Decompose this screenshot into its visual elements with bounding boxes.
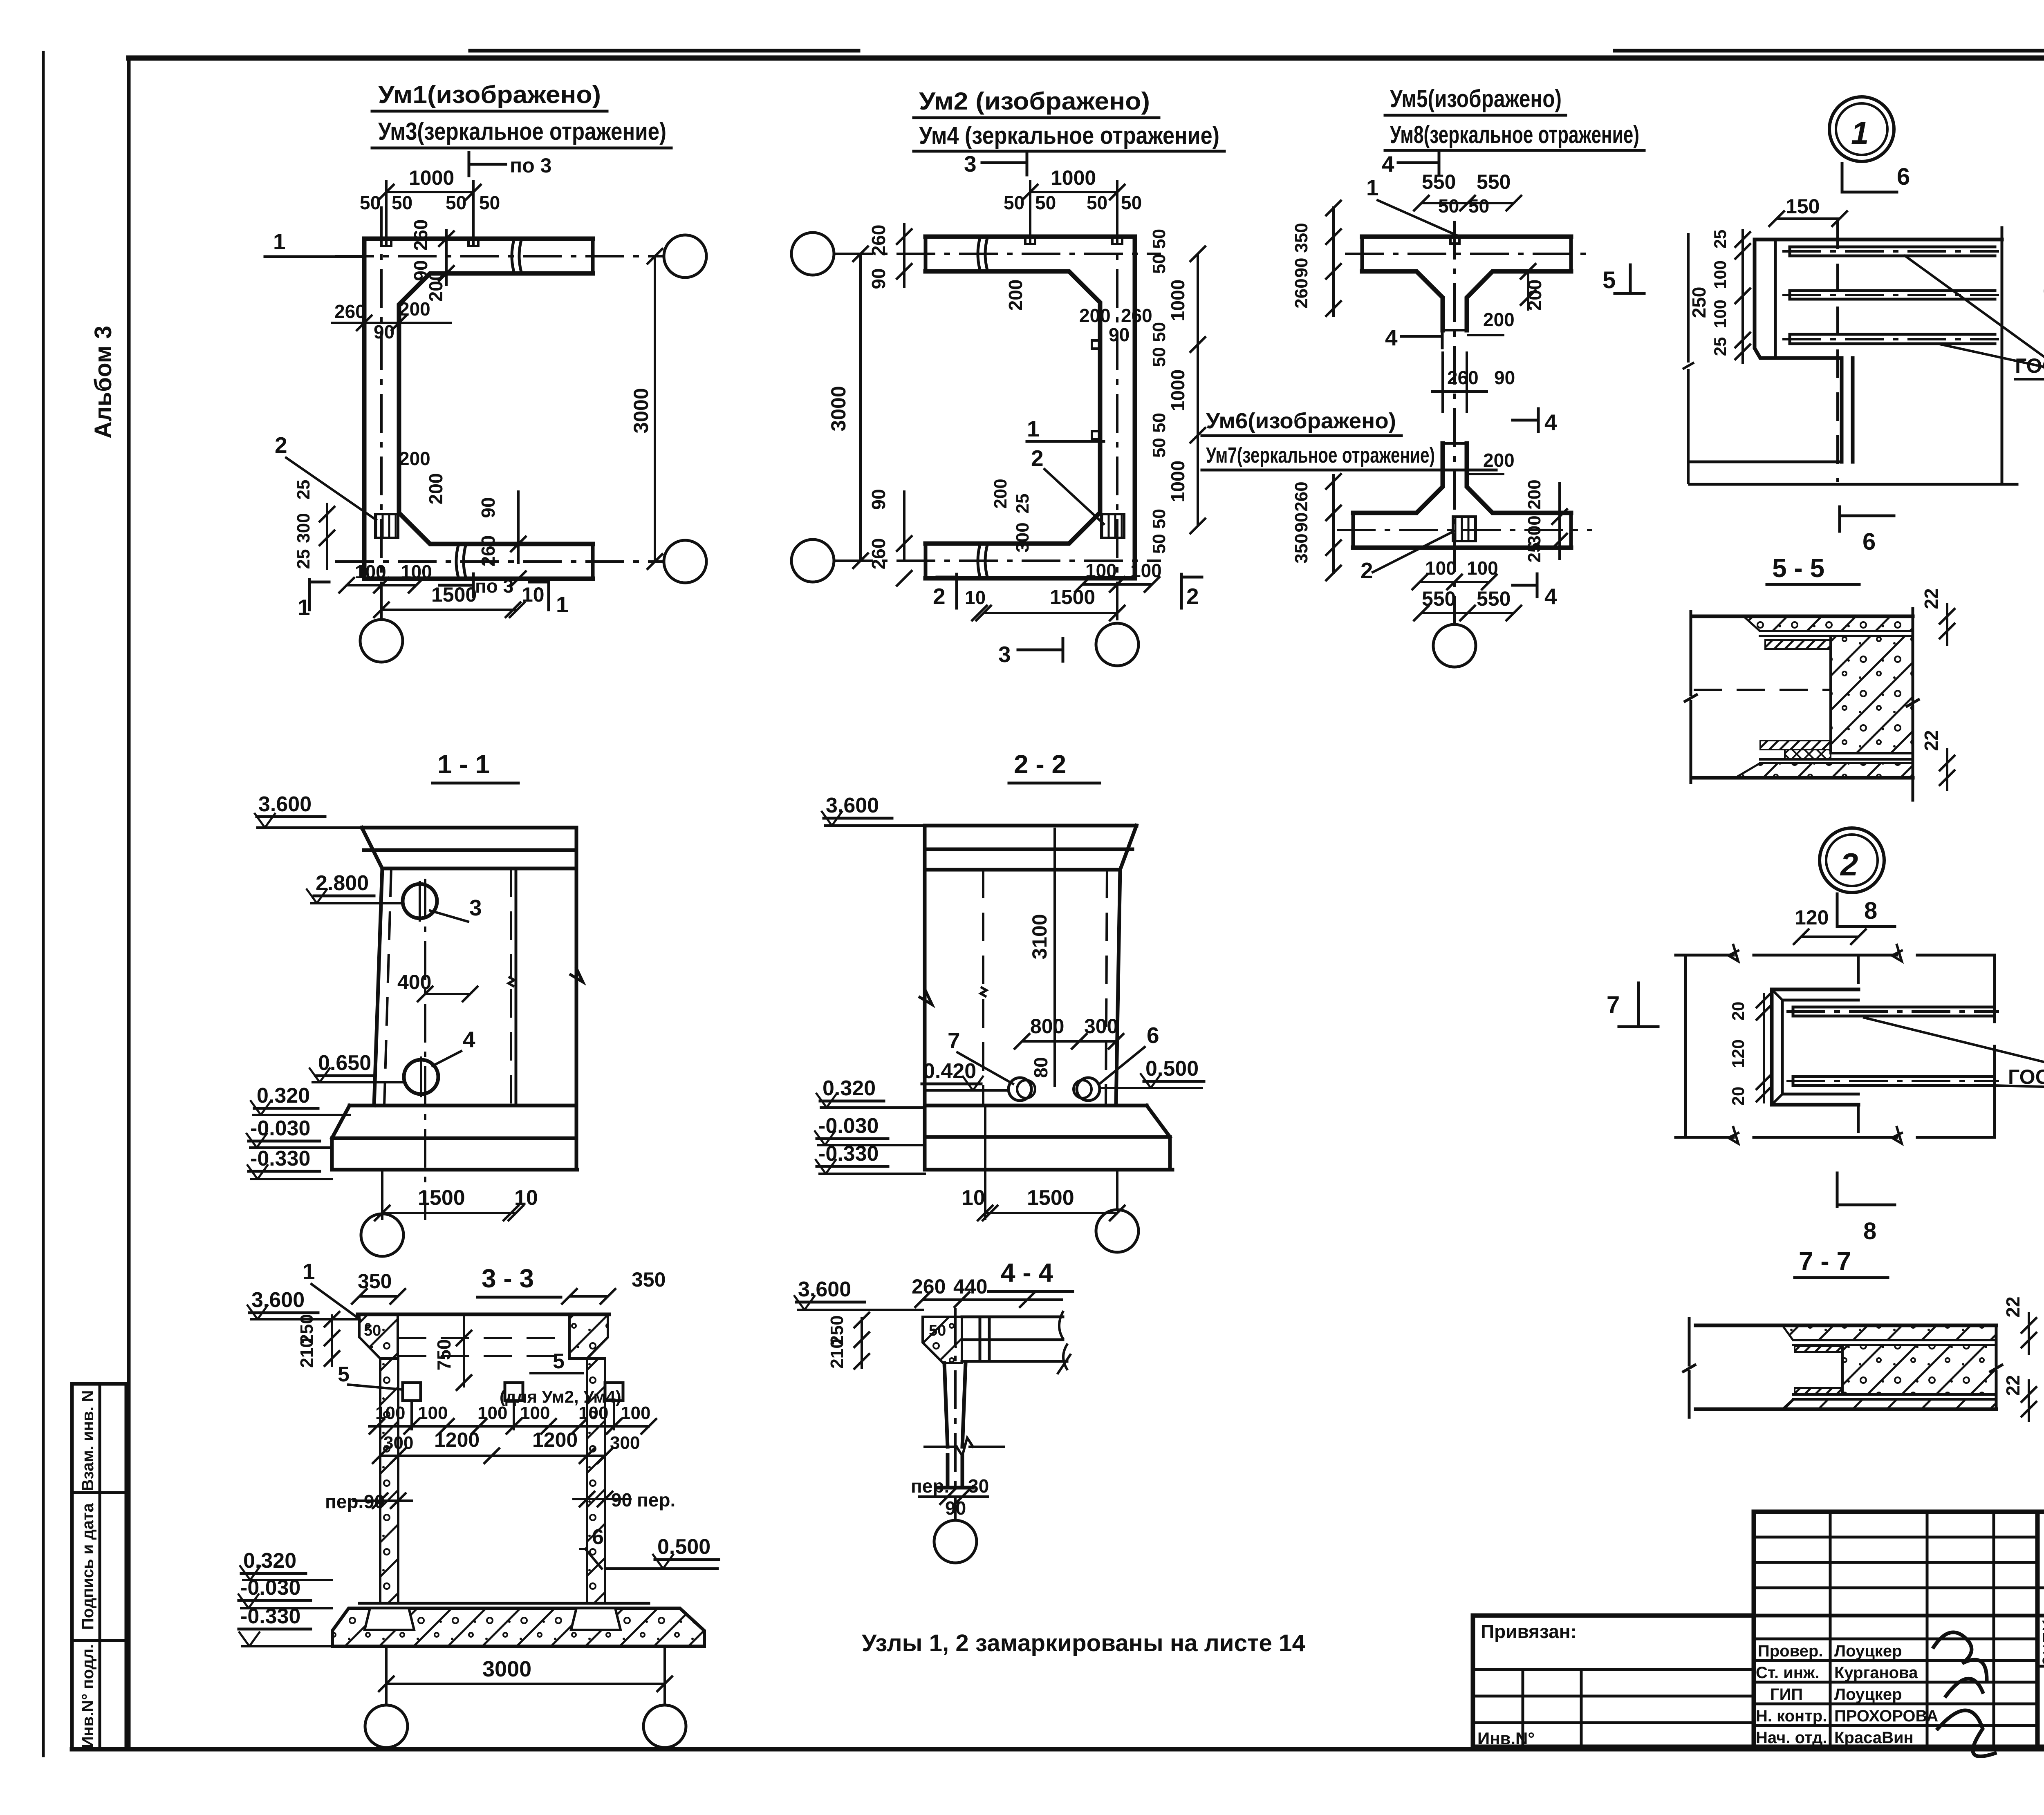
svg-text:Альбом 3: Альбом 3 [90, 326, 117, 439]
svg-text:90: 90 [477, 497, 499, 518]
svg-text:2: 2 [1840, 846, 1858, 882]
svg-text:Инв.N°: Инв.N° [1477, 1729, 1535, 1748]
svg-text:3100: 3100 [1028, 914, 1051, 959]
svg-text:200: 200 [991, 479, 1011, 508]
svg-text:300: 300 [610, 1433, 640, 1453]
svg-text:4: 4 [1385, 325, 1398, 350]
svg-text:2: 2 [1031, 445, 1044, 471]
svg-text:25: 25 [1524, 543, 1544, 563]
svg-text:1500: 1500 [418, 1186, 465, 1210]
svg-text:7: 7 [948, 1028, 960, 1053]
svg-text:Ум7(зеркальное отражение): Ум7(зеркальное отражение) [1206, 443, 1435, 468]
svg-text:0.320: 0.320 [257, 1084, 310, 1108]
svg-text:150: 150 [1786, 195, 1820, 218]
svg-text:1000: 1000 [1051, 166, 1096, 189]
svg-text:25: 25 [294, 549, 314, 569]
svg-text:300: 300 [1084, 1015, 1118, 1038]
svg-text:8: 8 [1864, 897, 1877, 924]
svg-text:6: 6 [592, 1525, 604, 1549]
svg-text:-0.030: -0.030 [250, 1117, 310, 1140]
svg-text:50: 50 [364, 1322, 381, 1339]
svg-text:100: 100 [477, 1403, 507, 1423]
svg-text:90: 90 [374, 321, 394, 342]
svg-text:7: 7 [1607, 991, 1620, 1018]
svg-text:Ум6(изображено): Ум6(изображено) [1206, 409, 1396, 433]
svg-text:1: 1 [1027, 416, 1040, 441]
svg-text:1500: 1500 [1050, 586, 1095, 609]
svg-text:210: 210 [827, 1338, 847, 1368]
svg-text:Провер.: Провер. [1758, 1642, 1823, 1660]
svg-text:750: 750 [433, 1339, 455, 1371]
svg-text:сточных Вод на фильтрацию.: сточных Вод на фильтрацию. [2042, 1652, 2044, 1667]
svg-text:50 50: 50 50 [1149, 509, 1169, 554]
svg-text:Лоуцкер: Лоуцкер [1834, 1642, 1902, 1660]
svg-text:50: 50 [1468, 195, 1489, 217]
svg-text:-0.330: -0.330 [250, 1147, 310, 1170]
svg-text:3: 3 [469, 895, 482, 920]
svg-text:1000: 1000 [1167, 461, 1188, 502]
svg-text:350: 350 [1291, 223, 1311, 253]
svg-text:90: 90 [1109, 324, 1130, 345]
svg-text:Привязан:: Привязан: [1481, 1621, 1577, 1642]
svg-text:Ум2 (изображено): Ум2 (изображено) [919, 87, 1150, 115]
svg-text:50: 50 [360, 192, 381, 213]
svg-text:100: 100 [375, 1403, 405, 1423]
svg-text:50: 50 [446, 192, 466, 213]
svg-text:5: 5 [553, 1350, 565, 1373]
svg-text:4: 4 [1544, 410, 1557, 435]
svg-text:550: 550 [1422, 170, 1456, 193]
svg-text:50: 50 [392, 192, 412, 213]
svg-text:пер.: пер. [637, 1489, 675, 1511]
svg-text:100: 100 [418, 1403, 448, 1423]
svg-text:6: 6 [1147, 1023, 1159, 1048]
svg-text:1200: 1200 [434, 1428, 480, 1451]
svg-text:200: 200 [425, 473, 446, 505]
svg-text:550: 550 [1477, 170, 1511, 193]
svg-text:100: 100 [621, 1403, 650, 1423]
svg-text:1: 1 [556, 592, 569, 617]
svg-text:2: 2 [275, 432, 287, 458]
svg-text:4: 4 [463, 1027, 475, 1052]
svg-text:5 - 5: 5 - 5 [1772, 553, 1824, 583]
svg-text:50: 50 [1438, 195, 1459, 217]
svg-text:50 50: 50 50 [1149, 229, 1169, 274]
svg-text:90: 90 [945, 1497, 966, 1519]
svg-text:200: 200 [1079, 305, 1111, 326]
svg-text:2 - 2: 2 - 2 [1014, 750, 1066, 779]
svg-text:120: 120 [1728, 1039, 1748, 1068]
svg-text:3.600: 3.600 [258, 792, 312, 816]
svg-text:3000: 3000 [827, 386, 850, 431]
svg-text:260: 260 [1447, 367, 1479, 388]
svg-text:Ум5(изображено): Ум5(изображено) [1390, 85, 1562, 112]
svg-text:5: 5 [1602, 267, 1616, 293]
svg-text:250: 250 [1688, 287, 1710, 318]
svg-text:1000: 1000 [1167, 369, 1188, 411]
svg-text:-0.330: -0.330 [240, 1605, 300, 1628]
svg-text:Нач. отд.: Нач. отд. [1756, 1729, 1827, 1747]
svg-text:300: 300 [1524, 515, 1544, 545]
svg-text:2: 2 [1360, 558, 1373, 583]
svg-text:Курганова: Курганова [1834, 1664, 1918, 1682]
svg-text:400: 400 [397, 971, 431, 994]
svg-text:Ум1(изображено): Ум1(изображено) [378, 81, 601, 108]
svg-text:80: 80 [1030, 1057, 1051, 1078]
svg-text:25: 25 [1013, 494, 1033, 514]
svg-text:22: 22 [1921, 730, 1942, 751]
svg-text:1000: 1000 [1167, 280, 1188, 321]
svg-text:90: 90 [868, 268, 889, 289]
svg-text:90: 90 [1291, 512, 1311, 533]
svg-text:7 - 7: 7 - 7 [1799, 1247, 1851, 1276]
svg-text:50: 50 [1087, 192, 1107, 213]
svg-text:100: 100 [1425, 557, 1457, 579]
svg-text:Подпись и дата: Подпись и дата [79, 1503, 97, 1630]
svg-text:260: 260 [868, 538, 889, 570]
svg-text:1500: 1500 [1027, 1186, 1074, 1210]
svg-text:3.600: 3.600 [251, 1288, 305, 1312]
svg-text:90: 90 [868, 489, 889, 510]
svg-text:Инв.N° подл.: Инв.N° подл. [79, 1644, 97, 1748]
svg-text:1000: 1000 [409, 166, 454, 189]
svg-text:4: 4 [1544, 584, 1557, 609]
svg-text:200: 200 [399, 448, 430, 469]
svg-text:Лоуцкер: Лоуцкер [1834, 1685, 1902, 1703]
svg-text:ГОСТ 14098-68-К3-Рр: ГОСТ 14098-68-К3-Рр [2015, 354, 2044, 377]
svg-text:ГОСТ 14098-68-К3-Рр: ГОСТ 14098-68-К3-Рр [2008, 1065, 2044, 1088]
svg-text:100: 100 [1467, 557, 1498, 579]
svg-text:210: 210 [297, 1338, 317, 1367]
svg-text:3000: 3000 [482, 1657, 531, 1681]
svg-text:1200: 1200 [532, 1428, 578, 1451]
svg-text:3000: 3000 [630, 388, 652, 433]
svg-text:Н. контр.: Н. контр. [1756, 1707, 1827, 1725]
svg-text:350: 350 [1291, 533, 1311, 563]
svg-text:260: 260 [1121, 305, 1152, 326]
svg-text:200: 200 [425, 271, 446, 302]
svg-text:22: 22 [1921, 588, 1942, 609]
svg-text:550: 550 [1477, 587, 1511, 610]
svg-text:440: 440 [953, 1275, 987, 1298]
svg-text:0.500: 0.500 [657, 1535, 710, 1559]
svg-text:200: 200 [1524, 479, 1544, 509]
svg-text:260: 260 [334, 301, 366, 322]
svg-text:0.420: 0.420 [923, 1059, 976, 1083]
svg-text:20: 20 [1728, 1087, 1748, 1106]
svg-text:50: 50 [1035, 192, 1056, 213]
svg-text:50: 50 [479, 192, 500, 213]
svg-text:30: 30 [968, 1475, 989, 1497]
svg-text:по 3: по 3 [510, 154, 551, 177]
svg-text:1: 1 [1366, 175, 1379, 200]
svg-text:350: 350 [358, 1270, 392, 1293]
svg-text:0.320: 0.320 [243, 1549, 296, 1573]
svg-text:200: 200 [1483, 309, 1515, 330]
svg-text:260: 260 [868, 225, 889, 256]
svg-text:Ст. инж.: Ст. инж. [1756, 1664, 1819, 1682]
svg-text:6: 6 [1897, 163, 1910, 190]
svg-text:50 50: 50 50 [1149, 322, 1169, 367]
svg-text:120: 120 [1795, 906, 1829, 929]
svg-text:Ум3(зеркальное отражение): Ум3(зеркальное отражение) [378, 118, 666, 145]
svg-text:6: 6 [1862, 528, 1876, 555]
svg-text:25: 25 [294, 480, 314, 500]
svg-text:ГИП: ГИП [1770, 1685, 1803, 1703]
svg-text:8: 8 [1863, 1218, 1876, 1244]
svg-text:пер.: пер. [911, 1475, 949, 1497]
svg-text:1: 1 [273, 229, 286, 254]
svg-text:50 50: 50 50 [1149, 413, 1169, 458]
svg-text:-0.330: -0.330 [818, 1142, 879, 1166]
svg-text:260: 260 [1291, 278, 1311, 308]
svg-text:0.500: 0.500 [1145, 1057, 1199, 1081]
svg-text:1: 1 [298, 595, 310, 620]
svg-text:260: 260 [477, 535, 499, 567]
svg-text:0.650: 0.650 [318, 1051, 371, 1075]
svg-text:-0.030: -0.030 [818, 1114, 879, 1138]
svg-text:КрасаВин: КрасаВин [1834, 1729, 1914, 1747]
svg-text:800: 800 [1030, 1015, 1064, 1038]
svg-text:1: 1 [303, 1259, 315, 1284]
svg-text:1500: 1500 [431, 583, 477, 606]
svg-text:100: 100 [401, 561, 432, 582]
svg-text:100: 100 [1710, 260, 1730, 289]
svg-text:90: 90 [1291, 258, 1311, 278]
svg-text:Узлы 1, 2 замаркированы на лис: Узлы 1, 2 замаркированы на листе 14 [862, 1630, 1305, 1656]
svg-text:3: 3 [998, 642, 1011, 667]
svg-text:25: 25 [1710, 230, 1730, 249]
svg-text:260: 260 [1291, 481, 1311, 511]
svg-text:Ум8(зеркальное отражение): Ум8(зеркальное отражение) [1390, 121, 1639, 148]
svg-text:200: 200 [1483, 450, 1515, 471]
svg-text:100: 100 [355, 561, 386, 582]
svg-text:-0.030: -0.030 [240, 1576, 300, 1600]
svg-text:3.600: 3.600 [826, 794, 879, 817]
svg-text:0.320: 0.320 [823, 1076, 876, 1100]
svg-text:300: 300 [294, 513, 314, 543]
svg-text:по 3: по 3 [475, 575, 513, 597]
svg-text:5: 5 [338, 1363, 350, 1386]
svg-text:50: 50 [1004, 192, 1024, 213]
svg-text:10: 10 [965, 587, 986, 608]
svg-text:1 - 1: 1 - 1 [437, 750, 490, 779]
svg-text:10: 10 [961, 1186, 985, 1210]
svg-text:4: 4 [1382, 151, 1394, 177]
svg-text:100: 100 [578, 1403, 608, 1423]
svg-text:300: 300 [1013, 522, 1033, 552]
svg-text:Взам. инв. N: Взам. инв. N [79, 1390, 97, 1491]
svg-text:200: 200 [1005, 280, 1026, 311]
svg-text:90: 90 [1494, 367, 1515, 388]
svg-text:260: 260 [410, 219, 431, 251]
svg-text:ПРОХОРОВА: ПРОХОРОВА [1834, 1707, 1938, 1725]
svg-text:22: 22 [2002, 1296, 2024, 1317]
svg-text:4 - 4: 4 - 4 [1001, 1258, 1053, 1287]
svg-text:50: 50 [929, 1322, 946, 1339]
svg-text:3.600: 3.600 [798, 1278, 851, 1301]
svg-text:350: 350 [632, 1268, 666, 1291]
svg-text:3: 3 [964, 151, 977, 177]
svg-text:100: 100 [1710, 300, 1730, 328]
svg-text:3 - 3: 3 - 3 [482, 1264, 534, 1293]
svg-text:2.800: 2.800 [316, 871, 369, 895]
svg-text:300: 300 [383, 1433, 413, 1453]
svg-text:100: 100 [520, 1403, 550, 1423]
svg-text:25: 25 [1710, 337, 1730, 356]
svg-text:2: 2 [1186, 584, 1199, 609]
svg-text:1: 1 [1851, 115, 1869, 151]
svg-text:2: 2 [933, 584, 946, 609]
svg-text:20: 20 [1728, 1002, 1748, 1021]
svg-text:Ум4 (зеркальное отражение): Ум4 (зеркальное отражение) [919, 122, 1219, 149]
svg-text:22: 22 [2002, 1375, 2024, 1396]
svg-text:50: 50 [1121, 192, 1142, 213]
